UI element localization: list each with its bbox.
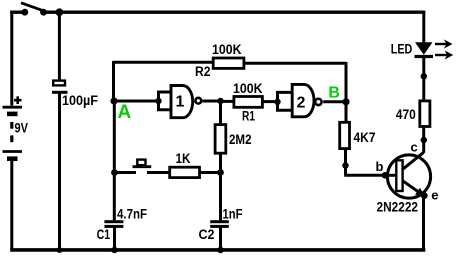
capacitor 100uF plate bottom: [52, 91, 68, 94]
wire node A down to C1: [113, 101, 116, 220]
svg-text:C1: C1: [97, 227, 111, 242]
pushbutton SW2 wire right: [147, 171, 169, 174]
capacitor C1 plate bottom: [104, 225, 123, 228]
wire 4K7 to base: [344, 150, 385, 175]
battery B1 dash 2: [10, 135, 13, 142]
gate U2 input bracket: [278, 92, 294, 110]
wire collector up to 470: [422, 128, 425, 153]
junction dot below 4K7: [342, 162, 348, 168]
wire base into bar: [385, 174, 397, 177]
svg-text:b: b: [376, 159, 384, 174]
wire C2 to rail: [219, 228, 222, 251]
wire 470 top to LED: [422, 57, 425, 100]
capacitor C2 plate bottom: [210, 225, 229, 228]
transistor Q1 circle: [387, 155, 430, 198]
pushbutton SW2 cap: [137, 160, 145, 166]
svg-text:B: B: [328, 85, 340, 102]
switch S1 lever: [21, 3, 45, 11]
transistor Q1 emitter arrowhead: [415, 188, 425, 197]
junction dot 1K/2M2/C2: [217, 169, 224, 176]
LED D1 cathode bar: [415, 55, 434, 58]
battery B1 long plate 2: [3, 150, 23, 153]
svg-text:100K: 100K: [233, 81, 263, 96]
emitter dot: [421, 192, 428, 199]
wire R2 right: [244, 62, 346, 122]
svg-text:R2: R2: [195, 64, 211, 79]
wire capacitor 100uF bottom: [58, 94, 61, 251]
node C2 / bottom rail: [217, 247, 223, 253]
svg-text:470: 470: [396, 107, 416, 122]
LED arrow 1: [435, 43, 447, 45]
battery B1 short plate 1: [7, 112, 18, 117]
resistor R5 4K7 body: [340, 122, 350, 148]
pushbutton SW2 wire left: [115, 171, 137, 174]
capacitor 100uF plate top (boxed): [53, 81, 65, 86]
battery B1 long plate 1: [3, 106, 23, 109]
node C1 / bottom rail: [111, 247, 117, 253]
svg-text:A: A: [118, 102, 132, 123]
battery B1 short plate 2: [7, 156, 18, 161]
svg-text:1nF: 1nF: [223, 207, 243, 222]
battery B1 plus sign: [14, 96, 22, 104]
wire LED top to rail: [422, 11, 425, 43]
transistor Q1 base dot: [382, 172, 389, 179]
pushbutton SW2 junction dot: [111, 169, 118, 176]
wire 2M2 bottom to junction and C2: [219, 153, 222, 220]
svg-text:2M2: 2M2: [229, 132, 252, 147]
resistor R1 body: [234, 97, 263, 108]
wire node B to 4K7: [345, 103, 348, 121]
node 100uF / bottom rail: [57, 247, 63, 253]
node B dot: [342, 98, 349, 105]
wire emitter to bottom rail: [422, 196, 425, 250]
wire gate2 output to node B: [323, 100, 346, 103]
wire capacitor 100uF top: [58, 12, 61, 80]
wire R1 right to gate 2: [264, 100, 278, 103]
svg-text:1K: 1K: [176, 151, 191, 166]
transistor Q1 collector stroke: [402, 152, 424, 170]
wire 1K right: [201, 171, 221, 174]
LED arrow 2: [435, 54, 448, 56]
svg-text:100K: 100K: [212, 42, 242, 57]
wire battery positive: [10, 11, 13, 106]
wire bottom rail: [10, 248, 425, 252]
capacitor C2 plate top: [210, 220, 229, 223]
svg-text:c: c: [411, 140, 418, 155]
resistor 470 body: [420, 101, 430, 127]
junction dot below LED: [421, 73, 427, 79]
svg-text:R1: R1: [242, 109, 255, 124]
switch S1 left contact: [21, 9, 28, 16]
svg-text:2: 2: [297, 94, 306, 111]
gate U1 input bracket: [159, 92, 173, 110]
gate U1 output bubble: [195, 98, 201, 104]
svg-text:100µF: 100µF: [62, 93, 98, 108]
transistor Q1 emitter stroke: [402, 180, 424, 196]
svg-text:4.7nF: 4.7nF: [117, 207, 147, 222]
pushbutton SW2 contact bar: [133, 165, 152, 168]
svg-text:1: 1: [176, 94, 185, 111]
wire to R1 left: [221, 100, 234, 103]
capacitor C1 plate top: [104, 220, 123, 223]
nand gate U2 body: [292, 84, 314, 116]
node gate1 out / 2M2 dot: [217, 98, 223, 104]
resistor R2 body: [213, 58, 244, 68]
gate U2 output bubble: [315, 99, 321, 105]
svg-text:9V: 9V: [15, 120, 29, 135]
switch S1 right contact: [40, 9, 47, 16]
wire C1 to rail: [113, 228, 116, 251]
transistor Q1 base bar: [396, 160, 402, 191]
svg-text:C2: C2: [199, 227, 215, 242]
wire top rail left stub: [10, 10, 25, 13]
LED D1 triangle: [415, 42, 433, 55]
wire top rail: [43, 10, 425, 13]
junction dot above collector: [421, 137, 427, 143]
node junction top rail / C3: [56, 8, 64, 16]
gate U1 input junction dot: [155, 98, 161, 104]
wire gate1 output: [203, 100, 222, 103]
svg-text:4K7: 4K7: [354, 130, 376, 145]
resistor 1K body: [170, 167, 200, 177]
svg-text:LED: LED: [391, 41, 413, 56]
gate U2 input junction dot: [274, 99, 280, 105]
wire R2 left: [114, 61, 214, 101]
resistor 2M2 body: [215, 125, 226, 154]
wire battery negative: [10, 161, 13, 250]
wire node A to gate 1: [114, 100, 159, 103]
battery B1 dash 1: [10, 122, 13, 129]
svg-text:2N2222: 2N2222: [377, 200, 419, 215]
svg-text:e: e: [431, 187, 438, 202]
wire gate1 out down to 2M2: [219, 101, 222, 125]
nand gate U1 body: [171, 86, 193, 118]
node A dot: [110, 97, 117, 104]
